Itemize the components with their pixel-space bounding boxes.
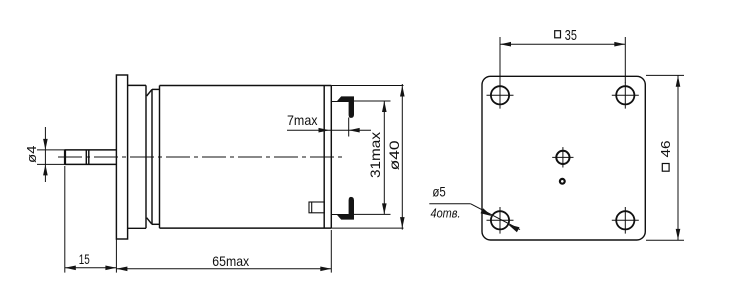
dimension 31max <box>354 101 391 214</box>
hole bottom-left <box>491 211 509 229</box>
rear bottom box <box>309 202 324 213</box>
flange (side view) <box>116 75 127 239</box>
dimension square35 <box>500 37 625 83</box>
text square35 <box>555 31 561 38</box>
svg-text:ø4: ø4 <box>24 146 39 164</box>
terminal top lead line <box>331 101 348 103</box>
shaft <box>65 150 117 165</box>
small pin circle <box>560 179 565 184</box>
terminal bottom <box>337 197 355 220</box>
terminal top <box>337 96 355 118</box>
front boss section <box>128 85 146 228</box>
svg-text:ø40: ø40 <box>387 140 402 171</box>
hole top-right <box>616 86 634 104</box>
hole top-left <box>491 86 509 104</box>
svg-text:ø5: ø5 <box>432 184 446 200</box>
mounting flange (front view) <box>482 76 645 240</box>
svg-text:15: 15 <box>79 252 90 267</box>
terminal bottom lead line <box>331 214 348 216</box>
motor body <box>160 86 332 229</box>
text square46 <box>659 140 673 171</box>
dimension dia4 <box>37 127 65 182</box>
svg-text:4отв.: 4отв. <box>431 207 461 221</box>
chamfer ring <box>147 89 160 224</box>
dimension 15 <box>65 166 117 273</box>
dimension 65max <box>116 230 331 273</box>
dimension square46 <box>646 75 684 240</box>
dimension dia40 <box>331 84 403 230</box>
svg-text:65max: 65max <box>212 253 249 269</box>
center shaft circle <box>556 151 569 164</box>
svg-text:31max: 31max <box>368 132 383 178</box>
hole bottom-right <box>616 211 634 229</box>
svg-text:7max: 7max <box>287 113 318 128</box>
centerline (side view axis) <box>58 156 346 158</box>
svg-text:35: 35 <box>565 28 577 44</box>
dimension 7max <box>287 118 371 137</box>
svg-text:46: 46 <box>659 140 673 157</box>
